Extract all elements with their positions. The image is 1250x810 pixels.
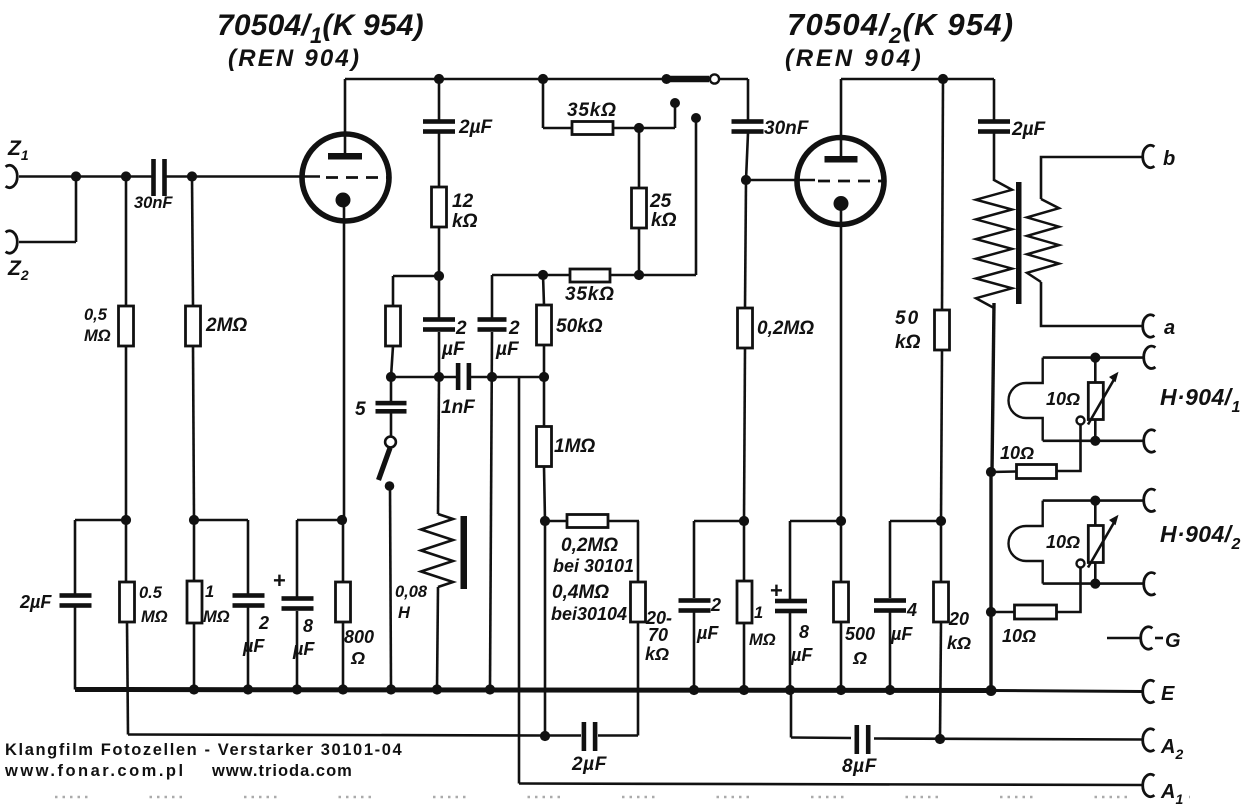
wire 500R chain — [840, 521, 843, 582]
wire mid-left segment — [393, 275, 439, 278]
wire cap5 to switch — [390, 414, 393, 437]
node 50k top — [538, 270, 548, 280]
wire node to cap5 — [390, 377, 393, 401]
capacitor 5 (nF) — [376, 401, 407, 406]
svg-text:1: 1 — [205, 583, 214, 601]
node bus 4uF — [885, 685, 895, 695]
resistor (unlabeled) x393 — [386, 306, 401, 346]
resistor 0.2M horizontal — [567, 515, 608, 528]
wire 1M-right to bus — [743, 622, 746, 690]
node H2 top — [1090, 496, 1100, 506]
wire loop bottom right — [598, 734, 638, 737]
node 50k mid — [539, 372, 549, 382]
terminal H2 bottom — [1144, 573, 1156, 595]
rheostat H1 wiper ring — [1077, 417, 1085, 425]
terminal Z1 — [6, 165, 18, 187]
svg-text:µF: µF — [292, 639, 315, 659]
node H1 top — [1090, 353, 1100, 363]
wire 0.2M-v chain — [745, 180, 746, 308]
svg-text:25: 25 — [649, 191, 672, 212]
wire A2 left segment — [791, 736, 851, 739]
resistor 20k — [934, 582, 949, 622]
capacitor 30nF interstage — [732, 119, 764, 124]
resistor 12k — [432, 187, 447, 227]
wire rail jog 2 — [194, 519, 248, 522]
wire rail to 2uF-out — [993, 79, 996, 120]
terminal H1 bottom — [1144, 430, 1156, 452]
svg-text:Ω: Ω — [852, 648, 867, 668]
wire 10R-H1 to primary — [991, 470, 1017, 473]
svg-text:+: + — [273, 568, 286, 593]
node 1nF line / x439 — [434, 372, 444, 382]
node bus coil — [432, 684, 442, 694]
wire S2 to ground bus — [390, 486, 391, 688]
terminal H1 top — [1144, 346, 1156, 368]
node at 0.5M top — [121, 171, 131, 181]
wire 20-70k down — [637, 622, 640, 736]
rheostat H2 top lead — [1094, 501, 1097, 526]
wire H1 bottom rail — [1043, 439, 1144, 442]
wire rail jog 4 — [694, 520, 744, 523]
svg-text:b: b — [1163, 148, 1175, 170]
rheostat H1 bottom lead — [1094, 420, 1097, 441]
svg-text:µF: µF — [242, 636, 265, 656]
svg-text:2MΩ: 2MΩ — [205, 315, 247, 336]
capacitor 2uF bias — [582, 722, 587, 751]
wire 0.5M-2 to A2 corner — [127, 622, 128, 735]
svg-text:1: 1 — [754, 604, 763, 622]
wire 8uF-right top — [789, 521, 792, 600]
node bus x492 — [485, 684, 495, 694]
capacitor 8uF cathode V1 — [282, 596, 314, 601]
wire mid-right segment — [492, 274, 570, 277]
wire 50k-2 to rail — [941, 350, 942, 521]
wire contact b down — [695, 118, 698, 275]
switch S1 open contact ring — [710, 74, 719, 83]
wire primary return 2 — [989, 472, 992, 612]
svg-text:50kΩ: 50kΩ — [556, 316, 603, 337]
svg-text:Klangfilm Fotozellen - Verstar: Klangfilm Fotozellen - Verstarker 30101-… — [5, 741, 403, 759]
wire A1 riser — [518, 377, 521, 784]
tube V2 cathode wire — [840, 210, 843, 521]
svg-text:10Ω: 10Ω — [1000, 443, 1034, 463]
wire rail jog 5 — [790, 520, 841, 523]
node bus E junction — [986, 685, 997, 696]
wire 35k-2 to 25k bottom — [610, 274, 696, 277]
svg-text:35kΩ: 35kΩ — [567, 100, 617, 121]
wire switch to 30nF-2 — [747, 79, 750, 120]
rheostat H2 wiper ring — [1077, 560, 1085, 568]
svg-text:2: 2 — [455, 318, 467, 339]
svg-text:2µF: 2µF — [458, 117, 494, 138]
wire 0.5M chain upper — [125, 177, 128, 307]
wire secondary top — [1041, 157, 1143, 199]
svg-text:5: 5 — [355, 399, 366, 420]
svg-text:2: 2 — [258, 613, 269, 633]
wire to 0.2M-h — [545, 520, 567, 523]
svg-text:0,5: 0,5 — [84, 306, 108, 324]
wire switch to 30nF chain — [719, 78, 748, 81]
capacitor 8uF A2 — [855, 725, 860, 754]
svg-text:10Ω: 10Ω — [1046, 389, 1080, 409]
resistor 35k lower — [570, 269, 610, 282]
node bus 2uF-d — [243, 684, 253, 694]
capacitor 2uF coupling a — [423, 317, 455, 322]
svg-text:www.trioda.com: www.trioda.com — [211, 762, 353, 780]
node 25k top — [634, 123, 644, 133]
terminal Z2 — [6, 231, 18, 253]
rheostat H1 arrow — [1088, 380, 1114, 425]
wire contact stub up — [674, 103, 677, 128]
wire 8uF-left to bus — [296, 611, 299, 690]
wire grid node to tube V2 — [746, 179, 815, 182]
wire anode V2 rail — [841, 78, 994, 81]
transformer T1 secondary — [1027, 199, 1059, 282]
svg-text:8: 8 — [799, 622, 809, 642]
wire 2uF-e top — [693, 521, 696, 598]
wire rail jog 1 — [75, 519, 126, 522]
node bus 8uF-left — [292, 684, 302, 694]
wire 12k to node — [438, 227, 441, 276]
wire 800R to bus — [342, 622, 345, 690]
node bus 2uF-e — [689, 685, 699, 695]
svg-text:kΩ: kΩ — [651, 210, 677, 231]
wire 50k-2 chain — [942, 79, 943, 310]
wire node to 1nF — [391, 376, 457, 379]
capacitor 2uF left d — [233, 593, 265, 598]
svg-text:Ω: Ω — [350, 648, 365, 668]
node bias network top — [540, 516, 550, 526]
svg-text:2: 2 — [508, 318, 520, 339]
switch S2 pivot ring — [385, 437, 396, 448]
wire bias line to left — [128, 735, 545, 736]
wire H2 top rail — [1043, 499, 1144, 502]
switch S1 blade (closed) — [665, 76, 709, 83]
wire G stub — [1107, 637, 1141, 640]
wire bus to E terminal — [991, 691, 1143, 692]
svg-text:30nF: 30nF — [764, 118, 810, 139]
wire to 35k-1 — [543, 127, 572, 130]
tube V1 envelope — [302, 134, 389, 221]
terminal b — [1143, 145, 1155, 167]
resistor 50k stage2 — [935, 310, 950, 350]
rheostat H1 top lead — [1094, 358, 1097, 383]
rheostat H2 arrow — [1088, 523, 1114, 568]
wire 0.5M to rail — [125, 346, 128, 520]
svg-text:500: 500 — [845, 624, 875, 644]
node H1 bottom — [1090, 436, 1100, 446]
wire 10R-H2 to primary — [991, 611, 1015, 614]
resistor 50k stage1 — [537, 305, 552, 345]
wire A2 right segment — [874, 739, 1143, 740]
wire 2M chain upper — [192, 177, 193, 307]
wire 2uF-a to 1nF node — [438, 332, 441, 377]
capacitor 2uF input filter — [60, 593, 92, 598]
node bus 8uF-right — [785, 685, 795, 695]
svg-text:4: 4 — [906, 600, 917, 620]
terminal a — [1143, 315, 1155, 337]
svg-text:a: a — [1164, 317, 1175, 339]
filament H2 bump — [1009, 501, 1043, 584]
svg-text:70: 70 — [648, 625, 668, 645]
tube V2 anode plate — [825, 156, 858, 163]
svg-text:0.5: 0.5 — [139, 584, 163, 602]
wire 50k top lead — [543, 275, 544, 305]
wire anode V1 top rail — [345, 78, 666, 81]
wire 20k chain — [940, 521, 943, 582]
capacitor 8uF cathode V2 — [775, 599, 807, 604]
node bus 1M-left — [189, 684, 199, 694]
svg-text:0,08: 0,08 — [395, 583, 428, 601]
switch S1 contact a — [670, 98, 680, 108]
wire Z2 up to Z1 node — [75, 177, 78, 243]
wire primary return 3 — [989, 612, 992, 691]
wire 0.2M-h to corner — [608, 520, 639, 523]
resistor 0.5M lower — [120, 582, 135, 622]
svg-text:0,2MΩ: 0,2MΩ — [757, 318, 814, 339]
resistor 2M — [186, 306, 201, 346]
svg-text:µF: µF — [495, 339, 520, 360]
wire 500R to bus — [840, 622, 843, 690]
svg-text:30nF: 30nF — [134, 194, 173, 212]
wire Z2 horizontal — [19, 241, 76, 244]
svg-text:(REN 904): (REN 904) — [785, 45, 924, 72]
svg-text:G: G — [1165, 630, 1181, 652]
wire cap to bias bottom node — [545, 734, 581, 737]
terminal G — [1141, 627, 1153, 649]
svg-text:kΩ: kΩ — [895, 332, 921, 353]
wire coil to bus — [437, 587, 438, 690]
rheostat H2 body — [1088, 526, 1103, 563]
switch S2 contact dot — [385, 481, 395, 491]
wire x492 top lead — [491, 275, 494, 318]
svg-text:50: 50 — [895, 308, 920, 329]
svg-text:(REN 904): (REN 904) — [228, 45, 361, 72]
svg-text:www.fonar.com.pl: www.fonar.com.pl — [4, 762, 186, 780]
wire 4uF to bus — [889, 612, 892, 690]
capacitor 2uF anode V1 — [423, 119, 455, 124]
svg-text:20: 20 — [948, 609, 969, 629]
wire loop right down — [637, 521, 640, 582]
svg-text:10Ω: 10Ω — [1046, 532, 1080, 552]
wire 50k to node — [543, 345, 546, 377]
svg-text:MΩ: MΩ — [141, 608, 168, 626]
resistor 800R — [336, 582, 351, 622]
node top rail / 2uF-12k chain — [434, 74, 444, 84]
capacitor 30nF input — [151, 159, 156, 196]
svg-text:0,4MΩ: 0,4MΩ — [552, 582, 609, 603]
rheostat H2 bottom lead — [1094, 563, 1097, 584]
svg-text:12: 12 — [452, 191, 474, 212]
svg-text:2µF: 2µF — [19, 592, 52, 612]
wire 1M-2 to bus — [193, 622, 196, 690]
wire H2 bottom rail — [1043, 582, 1144, 585]
wire 12k node to 2uF-a — [438, 276, 441, 318]
resistor 1M stage1 — [537, 427, 552, 467]
node right rail 1 — [739, 516, 749, 526]
tube V1 anode plate — [328, 153, 362, 160]
node V2 grid — [741, 175, 751, 185]
wire 2uF-b down — [490, 332, 492, 688]
node bus 800R — [338, 684, 348, 694]
svg-text:bei 30101: bei 30101 — [553, 556, 634, 576]
svg-text:1MΩ: 1MΩ — [554, 436, 595, 457]
svg-text:35kΩ: 35kΩ — [565, 284, 615, 305]
wire 390k top lead — [392, 276, 395, 306]
wire G dash — [1155, 637, 1163, 640]
wire cap to tube V1 grid — [167, 175, 321, 178]
wire top rail to 2uF-1 — [438, 79, 441, 120]
wire 800R chain — [342, 520, 345, 582]
resistor 0.5M upper — [119, 306, 134, 346]
resistor 35k upper — [572, 122, 613, 135]
filament H1 bump — [1009, 358, 1043, 441]
node 25k bottom — [634, 270, 644, 280]
wire 1nF node to coil — [438, 377, 439, 514]
svg-text:2µF: 2µF — [1011, 119, 1047, 140]
transformer T1 primary — [976, 180, 1012, 308]
tube V2 cathode dot — [834, 196, 849, 211]
capacitor 4uF — [874, 598, 906, 603]
node bias bottom — [540, 731, 550, 741]
wire 8uF-left top — [296, 520, 299, 598]
switch S1 contact b — [691, 113, 701, 123]
wire Z1 to grid coupling cap — [19, 175, 152, 178]
wire 20k to A2 line — [940, 622, 941, 739]
svg-text:0,2MΩ: 0,2MΩ — [561, 535, 618, 556]
inductor core bar — [461, 516, 468, 589]
wire 30nF-2 to grid node — [746, 133, 748, 180]
node left rail 3 — [337, 515, 347, 525]
resistor 1M lower left — [187, 581, 202, 623]
svg-text:bei30104: bei30104 — [551, 604, 627, 624]
capacitor 2uF output — [978, 119, 1010, 124]
wire 2M to rail — [193, 346, 194, 520]
wire 1M to bias node — [544, 467, 545, 521]
svg-text:800: 800 — [344, 627, 374, 647]
transformer T1 core — [1016, 182, 1022, 304]
wire primary return — [992, 303, 994, 472]
tube V2 envelope — [797, 138, 884, 225]
node right rail 2 — [836, 516, 846, 526]
terminal H2 top — [1144, 489, 1156, 511]
node H2 bottom — [1090, 579, 1100, 589]
bus E main — [75, 690, 992, 691]
wire H2 wiper down — [1057, 568, 1081, 613]
wire 8uF-A2 riser — [790, 690, 793, 738]
svg-text:8µF: 8µF — [842, 756, 878, 777]
wire 2uF-in to bus — [74, 607, 77, 690]
svg-text:MΩ: MΩ — [84, 327, 111, 345]
capacitor 2uF right e — [679, 598, 711, 603]
wire rail jog 3 — [297, 519, 342, 522]
resistor 25k — [632, 188, 647, 228]
capacitor 1nF — [456, 363, 461, 390]
svg-text:MΩ: MΩ — [749, 631, 776, 649]
tube V1 cathode wire — [343, 207, 346, 520]
svg-text:2µF: 2µF — [571, 754, 608, 775]
resistor 1M lower right — [737, 581, 752, 623]
wire 2uF-out to primary — [993, 133, 996, 181]
wire node to 1M — [543, 377, 546, 426]
wire 4uF top — [889, 521, 892, 598]
node tone network left — [386, 372, 396, 382]
node right rail 3 — [936, 516, 946, 526]
node Z1/Z2 junction — [71, 171, 81, 181]
tube V1 grid (dashed) — [326, 176, 387, 179]
tube V1 cathode dot — [336, 193, 351, 208]
wire 0.2M-v to rail — [744, 348, 745, 521]
node A2 / 20k — [935, 734, 945, 744]
wire 2uF-d to bus — [247, 607, 250, 690]
wire 8uF-right to bus — [789, 613, 792, 690]
tube V2 grid (dashed) — [818, 180, 882, 183]
scan artifact dotted page edge — [55, 796, 1190, 799]
wire H1 top rail — [1043, 356, 1144, 359]
node top rail / 35k branch — [538, 74, 548, 84]
svg-text:kΩ: kΩ — [645, 644, 669, 664]
wire rail jog 6 — [890, 520, 941, 523]
wire 1M-2 chain — [193, 520, 196, 582]
terminal A1 — [1143, 774, 1155, 796]
wire resistor x393 to node — [391, 346, 393, 377]
svg-text:kΩ: kΩ — [452, 211, 478, 232]
wire 2uF-d top — [247, 520, 250, 594]
node at 2M top — [187, 171, 197, 181]
svg-text:10Ω: 10Ω — [1002, 626, 1036, 646]
node left rail 1 — [121, 515, 131, 525]
svg-text:1nF: 1nF — [441, 397, 476, 418]
tube V1 anode wire — [344, 79, 347, 154]
wire A1 line — [519, 784, 1143, 786]
resistor 10R series H1 — [1017, 465, 1057, 479]
node heater tap 2 — [986, 607, 996, 617]
wire 1nF to 50k node — [470, 376, 544, 379]
inductor 0.08H zigzag — [421, 514, 453, 587]
wire 0.5M-2 chain — [125, 520, 128, 582]
wire 1M-right chain — [743, 521, 746, 582]
svg-text:2: 2 — [710, 595, 721, 615]
svg-text:H: H — [398, 604, 411, 622]
node bus 1M-right — [739, 685, 749, 695]
node 1nF line / x492 — [487, 372, 497, 382]
wire H1 wiper down — [1057, 425, 1081, 472]
resistor 500R — [834, 582, 849, 622]
node 50k-2 top — [938, 74, 948, 84]
svg-text:µF: µF — [441, 339, 466, 360]
terminal A2 — [1143, 729, 1155, 751]
node bus 500R — [836, 685, 846, 695]
node heater tap 1 — [986, 467, 996, 477]
svg-text:kΩ: kΩ — [947, 633, 971, 653]
svg-text:MΩ: MΩ — [203, 608, 230, 626]
node left rail 2 — [189, 515, 199, 525]
svg-text:µF: µF — [790, 645, 813, 665]
tube V2 anode wire — [840, 79, 843, 157]
terminal E — [1143, 680, 1155, 702]
wire 35k branch down — [542, 79, 545, 128]
resistor 10R series H2 — [1015, 605, 1057, 619]
wire 2uF-in top — [74, 520, 77, 594]
svg-text:µF: µF — [890, 624, 913, 644]
wire 25k top lead — [638, 128, 641, 188]
capacitor 2uF coupling b — [478, 317, 507, 322]
resistor 0.2M grid V2 — [738, 308, 753, 348]
resistor 20-70k — [631, 582, 646, 622]
node 12k bottom — [434, 271, 444, 281]
svg-text:E: E — [1161, 683, 1175, 705]
svg-text:8: 8 — [303, 616, 313, 636]
